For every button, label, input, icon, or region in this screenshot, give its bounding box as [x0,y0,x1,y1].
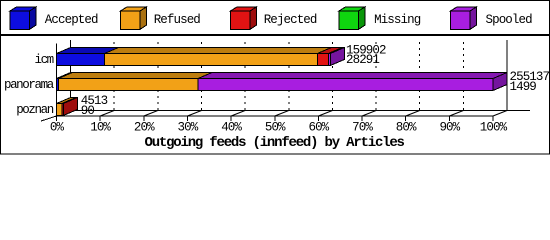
bar value labels [81,43,550,118]
svg-text:50%: 50% [265,121,286,135]
bars [57,48,508,116]
svg-text:40%: 40% [221,121,242,135]
svg-text:1499: 1499 [510,80,537,94]
icm side [330,48,344,66]
svg-text:0%: 0% [50,121,65,135]
svg-text:60%: 60% [308,121,329,135]
legend cube Missing [339,7,365,29]
svg-text:30%: 30% [178,121,199,135]
svg-text:90: 90 [81,104,95,118]
poznan fronts [57,104,62,116]
svg-text:28291: 28291 [346,53,379,67]
svg-text:Refused: Refused [154,13,201,27]
legend box [1,1,550,35]
legend cube Accepted [10,7,36,29]
row labels [4,53,55,117]
axis foot diagonal [41,116,57,121]
panorama bar: tops [57,73,73,79]
panorama fronts [57,79,59,91]
poznan side [63,98,77,116]
back wall 100% line [506,40,508,110]
dashed gridlines 10..90% [114,40,463,110]
svg-text:Accepted: Accepted [45,13,98,27]
back wall 0% line [70,40,72,110]
svg-text:80%: 80% [396,121,417,135]
icm fronts [57,54,105,66]
svg-text:poznan: poznan [16,103,54,117]
legend cube Spooled [451,7,477,29]
svg-text:100%: 100% [480,121,508,135]
ticks: diagonals front->back and stubs below [57,111,508,117]
back x-axis [71,110,531,112]
chart box [1,36,550,155]
icm bar: tops [57,48,119,54]
svg-text:90%: 90% [439,121,460,135]
svg-text:20%: 20% [134,121,155,135]
svg-text:icm: icm [34,53,53,67]
svg-text:Outgoing feeds (innfeed) by Ar: Outgoing feeds (innfeed) by Articles [145,135,405,151]
svg-text:10%: 10% [90,121,111,135]
poznan bar: tops [57,98,76,104]
front x-axis [56,115,493,117]
svg-text:Rejected: Rejected [264,13,317,27]
front y-axis [56,44,58,117]
chart axes and gridlines [56,40,530,116]
svg-text:Spooled: Spooled [486,13,533,27]
panorama side [493,73,507,91]
legend labels [45,13,532,27]
svg-text:panorama: panorama [4,78,55,92]
svg-text:Missing: Missing [374,13,421,27]
legend cube Refused [121,7,147,29]
svg-text:70%: 70% [352,121,373,135]
legend cube Rejected [231,7,257,29]
axis tick labels [50,121,508,135]
